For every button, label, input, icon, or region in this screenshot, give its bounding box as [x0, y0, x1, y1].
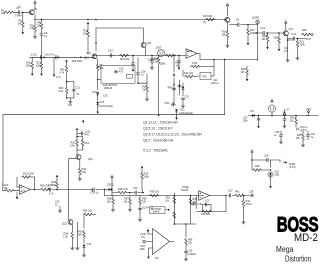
svg-text:R23 220k: R23 220k [23, 173, 34, 176]
svg-text:200: 200 [68, 104, 73, 107]
svg-text:Q1: Q1 [34, 7, 38, 11]
svg-text:LED: LED [275, 174, 280, 177]
svg-text:3.3k: 3.3k [81, 171, 86, 174]
svg-text:R22 10k: R22 10k [184, 72, 194, 75]
svg-text:250k: 250k [160, 63, 166, 66]
svg-text:Q13: Q13 [84, 57, 89, 60]
svg-text:Q14: Q14 [147, 42, 152, 45]
svg-text:100u: 100u [243, 119, 249, 122]
svg-text:(1): (1) [18, 6, 21, 9]
svg-text:IC1,2 : M5218AL: IC1,2 : M5218AL [143, 149, 169, 153]
svg-text:R40 68k: R40 68k [201, 213, 211, 216]
svg-text:1.5k: 1.5k [30, 26, 36, 30]
svg-text:47u: 47u [119, 70, 124, 73]
svg-text:10k: 10k [1, 11, 6, 15]
svg-text:100n-A: 100n-A [211, 82, 219, 85]
svg-text:(2): (2) [203, 21, 206, 24]
svg-text:4.7u: 4.7u [49, 193, 54, 196]
svg-text:25B4-B: 25B4-B [104, 87, 112, 90]
svg-text:100k: 100k [36, 64, 42, 67]
svg-text:C10: C10 [133, 187, 138, 190]
svg-text:Q21: Q21 [88, 158, 93, 161]
svg-text:C19: C19 [103, 95, 108, 98]
svg-text:C29 1u: C29 1u [91, 192, 100, 195]
svg-text:TR1: TR1 [202, 75, 207, 79]
svg-text:Q6,7 : 2SA1048-GR: Q6,7 : 2SA1048-GR [143, 139, 174, 143]
svg-text:0.22u(Tantal): 0.22u(Tantal) [98, 105, 113, 108]
svg-text:R11: R11 [87, 52, 92, 55]
svg-text:C37: C37 [228, 190, 233, 193]
svg-text:Q22: Q22 [62, 223, 67, 226]
svg-text:(4.5V): (4.5V) [300, 129, 307, 132]
svg-text:1M: 1M [18, 21, 22, 25]
svg-text:100k: 100k [144, 175, 150, 178]
svg-text:1M4-B: 1M4-B [181, 189, 188, 192]
svg-text:10k: 10k [37, 23, 42, 27]
svg-text:R13 10k: R13 10k [120, 58, 130, 61]
svg-text:0.047u: 0.047u [15, 14, 23, 18]
svg-text:220k: 220k [26, 64, 32, 67]
svg-text:R52: R52 [166, 198, 171, 200]
svg-text:R20: R20 [302, 29, 307, 32]
svg-text:100k-B: 100k-B [151, 58, 159, 61]
svg-text:*R40: *R40 [167, 87, 173, 90]
svg-text:Q3,5,10 : 2SK118-Y: Q3,5,10 : 2SK118-Y [143, 127, 174, 131]
svg-text:Mega: Mega [276, 245, 294, 254]
svg-text:C12: C12 [292, 33, 297, 36]
svg-text:C19: C19 [100, 101, 105, 104]
svg-text:C8 0.47u: C8 0.47u [45, 54, 55, 57]
svg-text:3 C19: 3 C19 [31, 54, 38, 57]
svg-text:Q3,4,17,18,20,21,22,23 : 2SC34: Q3,4,17,18,20,21,22,23 : 2SC3458-GR [143, 133, 202, 137]
svg-text:C33: C33 [87, 243, 92, 246]
svg-text:VCC: VCC [306, 108, 311, 111]
svg-text:Q1,11,12 : 2SK184-GR: Q1,11,12 : 2SK184-GR [143, 121, 178, 125]
svg-text:R18 220k: R18 220k [72, 60, 83, 63]
svg-text:4.7k: 4.7k [60, 71, 65, 74]
svg-text:2SC11: 2SC11 [107, 184, 115, 187]
svg-text:0.30u(Tantal): 0.30u(Tantal) [179, 112, 193, 115]
svg-text:*C20: *C20 [164, 102, 170, 105]
svg-text:C18: C18 [264, 155, 269, 158]
svg-text:C19: C19 [92, 91, 97, 94]
svg-text:Distortion: Distortion [285, 254, 311, 263]
svg-text:R15 20k: R15 20k [203, 15, 213, 18]
svg-text:C22: C22 [185, 96, 190, 99]
svg-text:DIST: DIST [156, 47, 162, 50]
svg-text:MD-2: MD-2 [294, 232, 318, 244]
svg-text:OUT: OUT [306, 38, 312, 41]
svg-text:BOTTOM: BOTTOM [151, 209, 161, 211]
svg-text:IC1: IC1 [189, 49, 194, 53]
svg-text:C13: C13 [76, 87, 81, 90]
svg-text:C13: C13 [108, 50, 113, 53]
svg-text:5.6k: 5.6k [70, 144, 75, 147]
svg-text:R41: R41 [235, 191, 240, 194]
svg-text:IC2: IC2 [155, 257, 159, 260]
svg-text:R31: R31 [85, 142, 90, 145]
svg-text:R48: R48 [255, 165, 260, 168]
svg-text:1.5k: 1.5k [63, 235, 68, 238]
svg-text:47u: 47u [284, 50, 289, 53]
svg-text:1M: 1M [241, 71, 244, 74]
svg-text:100k: 100k [140, 248, 146, 251]
svg-text:220: 220 [83, 32, 88, 35]
svg-text:470k: 470k [192, 62, 198, 65]
svg-text:(1.3V): (1.3V) [289, 166, 296, 169]
svg-text:C35: C35 [198, 203, 203, 206]
svg-text:R28 2.2k: R28 2.2k [118, 188, 128, 191]
svg-text:100k: 100k [300, 43, 306, 46]
svg-text:470-A: 470-A [246, 203, 253, 206]
svg-text:Q17: Q17 [289, 28, 294, 31]
svg-text:47u: 47u [85, 134, 90, 137]
svg-text:100k: 100k [51, 184, 57, 187]
svg-text:0.0022u: 0.0022u [188, 253, 197, 256]
svg-text:LEVEL: LEVEL [252, 17, 260, 20]
svg-text:47u: 47u [141, 236, 146, 239]
svg-text:R34 10k: R34 10k [83, 210, 93, 213]
svg-text:C38: C38 [249, 191, 254, 194]
svg-text:IC1: IC1 [22, 190, 27, 193]
svg-text:C10: C10 [261, 27, 266, 30]
svg-text:IC2: IC2 [206, 200, 211, 203]
svg-text:1M: 1M [262, 38, 265, 41]
svg-text:3.3k: 3.3k [58, 90, 63, 93]
svg-text:4.7k: 4.7k [56, 76, 61, 79]
svg-text:R36 10k: R36 10k [150, 191, 160, 194]
